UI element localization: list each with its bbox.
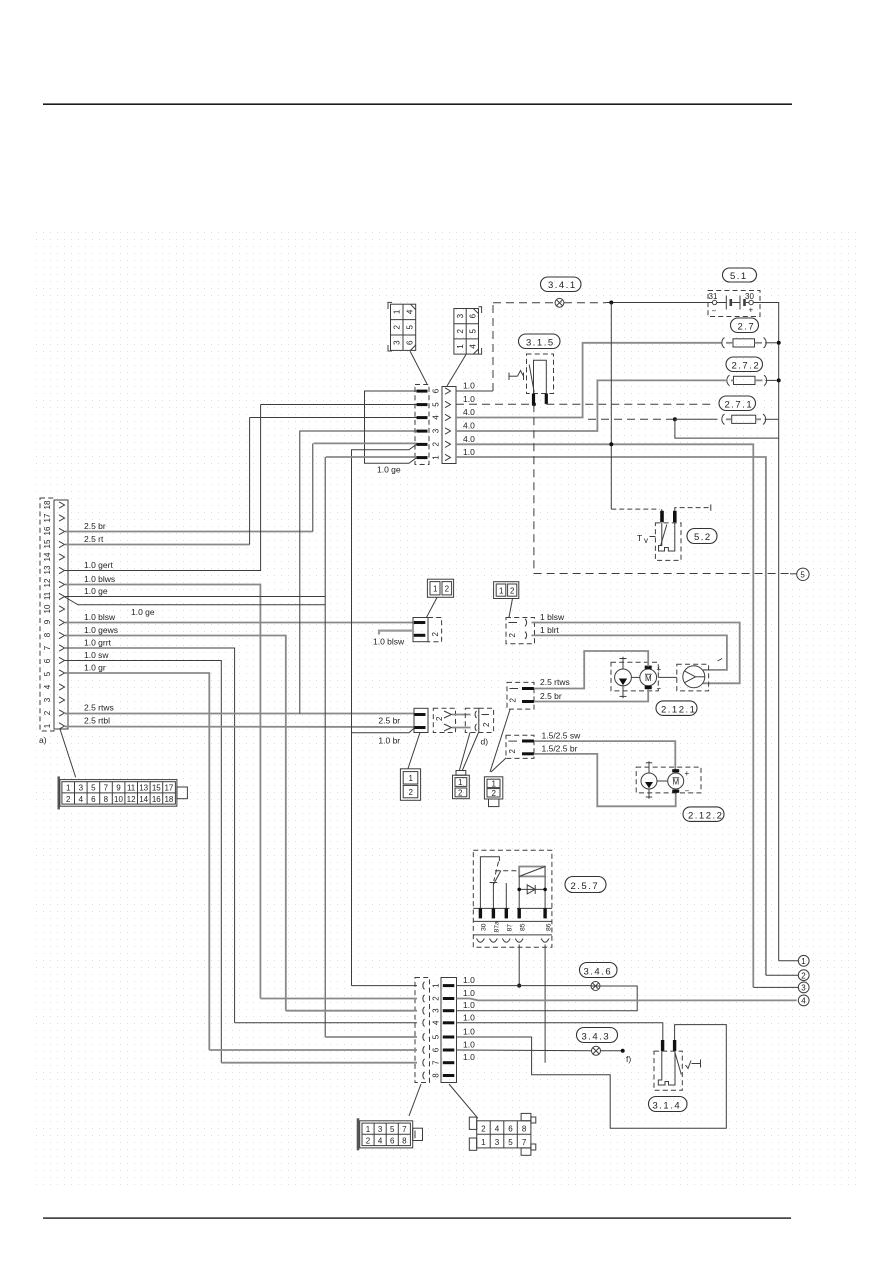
svg-text:4: 4 <box>405 309 414 314</box>
svg-text:a): a) <box>39 735 47 745</box>
connector X5 (1blsw/1blrt) plug view <box>494 582 519 599</box>
svg-text:10: 10 <box>43 604 52 613</box>
svg-text:3.4.6: 3.4.6 <box>584 966 613 977</box>
svg-text:1.0 gert: 1.0 gert <box>84 560 113 570</box>
junction X2pin5/3.1.5/node5 <box>532 402 536 406</box>
svg-text:14: 14 <box>139 795 148 804</box>
leaders X8d to plug g2 <box>460 733 471 771</box>
node circle 1 <box>779 960 799 962</box>
wire 1.0 blsw stub <box>379 631 413 635</box>
leader X4 plug to connector <box>427 598 438 618</box>
svg-text:3: 3 <box>79 784 84 793</box>
leader X8c to plug g1 <box>408 733 420 769</box>
svg-text:1.0 blsw: 1.0 blsw <box>84 612 116 622</box>
connector X2 wedges <box>445 388 451 461</box>
lamp E1 symbol <box>555 298 564 307</box>
connector X4 housing <box>413 618 428 642</box>
svg-text:2.7: 2.7 <box>738 322 756 333</box>
svg-text:7: 7 <box>402 1125 407 1134</box>
battery G1 cells <box>717 296 749 310</box>
svg-text:2: 2 <box>456 329 465 334</box>
relay K1 armature dashed link <box>494 862 499 882</box>
switch F5 vT symbol <box>686 1060 701 1069</box>
svg-text:3: 3 <box>495 1138 500 1147</box>
svg-text:1: 1 <box>43 723 52 728</box>
wire X2 pin4 right to fuse 2.7 <box>456 343 722 418</box>
svg-text:2: 2 <box>432 442 441 447</box>
connector X1 pin numbers 1-18 <box>43 500 52 728</box>
wire X3 pin2 to node 4 <box>457 999 797 1001</box>
relay K1 diode V1 <box>519 885 545 894</box>
svg-text:6: 6 <box>432 388 441 393</box>
svg-text:2: 2 <box>481 1125 486 1134</box>
svg-text:3: 3 <box>432 428 441 433</box>
svg-text:2: 2 <box>393 325 402 330</box>
sensor B1 5.2 housing dashed <box>655 523 681 561</box>
svg-text:11: 11 <box>127 784 136 793</box>
relay K1 socket wedges <box>477 939 550 943</box>
svg-text:2.7.2: 2.7.2 <box>732 361 761 372</box>
svg-text:2: 2 <box>445 585 450 594</box>
motor M2 2.12.2 housing dashed <box>636 767 701 793</box>
connector X8c wedges <box>444 711 452 718</box>
svg-text:1.0: 1.0 <box>463 394 475 404</box>
X2 plug view box e2 (mirror 3-6) <box>454 307 482 354</box>
svg-text:−: − <box>657 684 662 693</box>
svg-text:4: 4 <box>79 795 84 804</box>
svg-text:+: + <box>685 769 690 778</box>
svg-text:5: 5 <box>405 325 414 330</box>
svg-text:1: 1 <box>433 585 438 594</box>
wire X2 pin5 to X1 pin13 <box>261 404 417 406</box>
wire X2 pin4 to X1 pin15 <box>250 417 417 419</box>
wire 1.0 ge pin11 lower branch <box>64 597 325 605</box>
fuse F2 symbol <box>727 375 777 386</box>
svg-text:8: 8 <box>104 795 109 804</box>
wire X2 pin1 to ge bus <box>326 456 417 458</box>
svg-text:3.4.3: 3.4.3 <box>582 1031 611 1042</box>
svg-text:30: 30 <box>481 923 488 931</box>
svg-text:9: 9 <box>116 784 121 793</box>
svg-text:7: 7 <box>43 645 52 650</box>
svg-text:87a: 87a <box>494 921 501 933</box>
X1 pinout table <box>58 776 188 809</box>
plug h1 pinout table <box>357 1118 423 1150</box>
motor M1 link <box>631 676 639 678</box>
wire 1.0 blws pin12 <box>65 585 260 999</box>
svg-text:6: 6 <box>468 313 477 318</box>
svg-text:6: 6 <box>432 1047 441 1052</box>
svg-text:1: 1 <box>409 774 414 783</box>
wire X3 pin4 to switch 3.1.4 left <box>457 1023 663 1040</box>
svg-text:2: 2 <box>66 795 71 804</box>
svg-text:4: 4 <box>468 344 477 349</box>
svg-text:1.0: 1.0 <box>463 447 475 457</box>
sensor B1 5.2 terminal marks <box>660 511 664 523</box>
svg-text:1.5/2.5 sw: 1.5/2.5 sw <box>542 731 582 741</box>
svg-text:2.12.2: 2.12.2 <box>688 810 723 821</box>
connector X1 wedge contacts <box>59 502 65 729</box>
connector X3 wedges <box>423 982 425 1080</box>
svg-text:13: 13 <box>139 784 148 793</box>
wire X2 pin3 right to fuse 2.7.2 <box>456 380 726 431</box>
switch F5 probe <box>658 1051 681 1085</box>
svg-text:87: 87 <box>507 924 514 932</box>
svg-text:1: 1 <box>393 309 402 314</box>
svg-text:5.1: 5.1 <box>730 271 748 282</box>
wire V611 feed down to sensor 5.2 <box>610 303 612 510</box>
sensor B1 5.2 label <box>687 529 717 544</box>
svg-text:6: 6 <box>508 1125 513 1134</box>
switch F4 3.1.5 housing dashed <box>527 354 554 394</box>
relay K1 coil <box>519 867 545 877</box>
plug g1 view <box>400 769 420 801</box>
svg-text:1: 1 <box>366 1125 371 1134</box>
svg-text:1.0 gews: 1.0 gews <box>84 625 118 635</box>
top rule <box>43 103 792 105</box>
connector X5 wedges <box>525 619 527 626</box>
svg-text:16: 16 <box>152 795 161 804</box>
svg-text:2: 2 <box>492 789 497 798</box>
svg-text:d): d) <box>481 737 489 747</box>
svg-text:2: 2 <box>432 996 441 1001</box>
wire X2 pin3 to X1 pin2 rtws <box>300 431 417 714</box>
connector X6 (2.5 rtws/br) housing dashed <box>507 682 534 709</box>
switch F5 3.1.4 housing dashed <box>654 1051 682 1090</box>
svg-text:7: 7 <box>522 1138 527 1147</box>
svg-text:1.0 ge: 1.0 ge <box>377 465 401 475</box>
connector X3 pin marks <box>443 984 455 1077</box>
svg-text:8: 8 <box>402 1136 407 1145</box>
svg-text:3.1.5: 3.1.5 <box>526 338 555 349</box>
svg-text:5: 5 <box>91 784 96 793</box>
wire 1.0 br jog to X8c pin2 <box>352 728 415 733</box>
switch F4 terminal marks <box>532 394 535 404</box>
svg-text:f): f) <box>626 1054 631 1064</box>
relay K1 moving contact <box>493 871 501 885</box>
svg-text:+: + <box>657 665 662 674</box>
leader plug e2 to X2 <box>447 355 466 387</box>
svg-text:17: 17 <box>164 784 173 793</box>
switch F5 3.1.4 label <box>649 1097 688 1112</box>
svg-text:1.0: 1.0 <box>463 381 475 391</box>
relay K1 coil risers <box>518 876 520 908</box>
connector X8d housing <box>465 708 479 732</box>
svg-text:18: 18 <box>164 795 173 804</box>
node circle 5 <box>797 568 809 580</box>
wire lamp row dashed to battery <box>493 302 555 304</box>
svg-text:M: M <box>645 674 652 683</box>
svg-text:15: 15 <box>43 539 52 548</box>
battery G1 terminal 30 <box>749 300 753 304</box>
fuse F3 2.7.1 label <box>719 396 756 411</box>
svg-text:18: 18 <box>43 500 52 509</box>
wire 2.5 br pin16 <box>65 531 313 533</box>
svg-text:6: 6 <box>43 658 52 663</box>
motor M1 2.12.1 housing dashed <box>611 662 658 691</box>
svg-text:13: 13 <box>43 565 52 574</box>
connector X7 pin marks <box>522 740 534 743</box>
svg-text:1.0 br: 1.0 br <box>378 736 400 746</box>
connector X1 wedge contact box <box>54 500 68 729</box>
svg-text:17: 17 <box>43 513 52 522</box>
connector X3 pin-mark housing <box>441 978 457 1083</box>
svg-text:2.5 rtws: 2.5 rtws <box>540 677 570 687</box>
connector X8c housing <box>414 708 428 732</box>
node circle 4 <box>798 995 809 1006</box>
connector X6 pin marks <box>522 687 534 690</box>
svg-text:6: 6 <box>405 340 414 345</box>
wire node5 dashed drop and run to node circle 5 <box>534 404 790 573</box>
svg-text:2: 2 <box>508 749 517 754</box>
svg-text:12: 12 <box>127 795 136 804</box>
svg-text:4: 4 <box>432 415 441 420</box>
svg-text:1: 1 <box>432 983 441 988</box>
mark speckle <box>718 659 723 662</box>
X3 left row stubs <box>209 986 417 1063</box>
wire X3 pin5 loop to switch 3.1.4 right <box>457 1025 727 1129</box>
svg-text:4: 4 <box>432 1020 441 1025</box>
wire lamp 3.4.3 stub to f) <box>601 1050 623 1052</box>
connector X2 wedge housing <box>442 387 456 464</box>
svg-text:M: M <box>673 777 680 786</box>
wire X2 pin5 dashed row (terminal 15) <box>456 403 531 405</box>
svg-text:3.1.4: 3.1.4 <box>653 1100 682 1111</box>
motor M1 armature circle <box>640 669 657 686</box>
svg-text:86: 86 <box>546 923 553 931</box>
svg-text:10: 10 <box>114 795 123 804</box>
motor M1 pump circle <box>615 657 632 699</box>
wire 2.5 rtbl pin1 <box>65 726 415 729</box>
svg-text:1.5/2.5 br: 1.5/2.5 br <box>542 744 578 754</box>
sensor B1 open stub right <box>675 508 711 511</box>
connector X1 18-pin strip (left) outer dashed housing <box>40 498 54 731</box>
svg-text:85: 85 <box>520 923 527 931</box>
wire 1.0 sw pin6 <box>65 661 221 1063</box>
connector X5 housing dashed <box>506 618 535 644</box>
node circle 2 <box>766 974 798 976</box>
svg-text:12: 12 <box>43 578 52 587</box>
svg-text:5: 5 <box>508 1138 513 1147</box>
svg-text:9: 9 <box>43 619 52 624</box>
svg-text:1.0 blsw: 1.0 blsw <box>373 637 405 647</box>
svg-text:+: + <box>749 306 754 315</box>
svg-text:5: 5 <box>432 402 441 407</box>
svg-text:4: 4 <box>495 1125 500 1134</box>
plug h2 pinout table <box>469 1113 536 1155</box>
svg-text:2: 2 <box>435 716 444 721</box>
svg-text:1.0 gr: 1.0 gr <box>84 663 106 673</box>
svg-text:3: 3 <box>43 697 52 702</box>
wire fuse 2.7.1 bypass loop to feed riser <box>675 419 779 438</box>
connector X3 pin numbers 1-8 <box>432 983 441 1078</box>
motor M2 link <box>657 780 668 782</box>
svg-text:2: 2 <box>801 971 806 980</box>
wire 2.5 rtws to M1 plus <box>534 651 648 689</box>
svg-text:1: 1 <box>432 455 441 460</box>
wire X2 pin2 right to node 3 riser <box>456 444 753 987</box>
svg-text:3: 3 <box>801 984 806 993</box>
connector X7 (1.5/2.5) housing dashed <box>506 735 534 758</box>
svg-text:2: 2 <box>431 632 440 637</box>
svg-text:3: 3 <box>456 313 465 318</box>
relay K1 pin bars <box>479 908 547 918</box>
wire 1.0 ge jumper X2 pin6 to pin1 (harness loop) <box>365 391 417 463</box>
svg-text:1 blrt: 1 blrt <box>540 625 560 635</box>
motor M2 terminal marks <box>672 769 679 772</box>
svg-text:T: T <box>637 533 642 543</box>
svg-text:−: − <box>685 787 690 796</box>
svg-text:8: 8 <box>432 1073 441 1078</box>
connector X2 pin contact marks <box>417 390 428 460</box>
svg-text:14: 14 <box>43 552 52 561</box>
svg-text:2.5 br: 2.5 br <box>540 691 562 701</box>
relay K1 switch: pin30 riser <box>480 857 499 909</box>
wire dashed branch to fuse 2.7.1 <box>588 418 675 420</box>
svg-text:2.5.7: 2.5.7 <box>571 881 600 892</box>
svg-text:2.5 rtbl: 2.5 rtbl <box>84 716 110 726</box>
svg-text:4: 4 <box>378 1136 383 1145</box>
svg-text:5: 5 <box>432 1034 441 1039</box>
svg-text:2.12.1: 2.12.1 <box>661 704 696 715</box>
svg-text:7: 7 <box>104 784 109 793</box>
wire X2 pin1 right to node 2 riser <box>456 457 766 975</box>
wire X3 pin1 to lamp 3.4.6 and down to pin3 <box>457 986 638 1011</box>
svg-text:31: 31 <box>709 292 718 301</box>
connector X2 6-pin: pin-mark housing (dashed) <box>415 385 429 465</box>
svg-text:3.4.1: 3.4.1 <box>548 280 577 291</box>
fuse F1 2.7 label <box>731 318 759 333</box>
sensor B1 probe <box>659 523 675 551</box>
wire 1.5/2.5 sw to M2 plus <box>534 741 675 771</box>
wire X2 pin2 jog branch down to X3 pin1 <box>352 444 417 985</box>
connector X8c pin marks <box>415 713 426 716</box>
battery G1 terminal 31 <box>712 300 716 304</box>
connector X2 pin numbers 6..1 <box>432 388 441 460</box>
svg-text:4: 4 <box>43 684 52 689</box>
wire relay86 down to X3 pin7 <box>544 945 546 1063</box>
svg-text:2.5 rtws: 2.5 rtws <box>84 703 114 713</box>
wire 1.0 grrt pin7 <box>65 648 235 1023</box>
svg-text:4.0: 4.0 <box>463 421 475 431</box>
wire 1 blrt to fan <box>532 635 727 670</box>
label 2.12.2 <box>683 807 724 822</box>
switch F4 contact frame <box>534 360 547 393</box>
leader X7 to plug g3 <box>491 758 506 772</box>
svg-text:5: 5 <box>800 571 805 580</box>
svg-text:2: 2 <box>409 788 414 797</box>
label 2.5.7 <box>565 877 606 893</box>
wire battery 30 to main feed riser <box>753 303 778 420</box>
wire 2.5 rt pin15 <box>65 544 250 546</box>
svg-text:3: 3 <box>378 1125 383 1134</box>
svg-text:3: 3 <box>432 1008 441 1013</box>
svg-text:2.5 br: 2.5 br <box>84 521 106 531</box>
svg-text:−: − <box>712 307 717 316</box>
lamp E3 3.4.3 label <box>577 1028 618 1043</box>
connector X8d wedges <box>475 711 476 718</box>
svg-text:4.0: 4.0 <box>463 434 475 444</box>
wire 1.0 gert pin13 <box>65 405 261 571</box>
node circle 3 <box>753 986 798 988</box>
switch F4 actuator symbol <box>509 365 534 393</box>
motor M2 pump circle <box>641 761 657 798</box>
svg-text:1.0: 1.0 <box>463 975 475 985</box>
wire relay85 down to row1 junction <box>518 945 520 986</box>
lamp E1 3.4.1 label <box>541 277 582 292</box>
connector X4 pin marks <box>414 621 426 624</box>
fan housing dashed <box>677 664 709 691</box>
svg-text:6: 6 <box>91 795 96 804</box>
X2 plug view box e1 (1-6) <box>388 302 416 351</box>
svg-text:1 blsw: 1 blsw <box>540 612 565 622</box>
leader X5 plug to connector <box>509 599 513 618</box>
wire 2.5 br to M1 minus <box>534 689 648 701</box>
relay K1 pin 87 riser <box>505 883 507 908</box>
fuse F1 symbol <box>722 338 777 349</box>
svg-text:1.0: 1.0 <box>463 1040 475 1050</box>
svg-text:4: 4 <box>801 997 806 1006</box>
leader X3 to plug h1 <box>409 1084 421 1116</box>
relay K1 pin 87a riser <box>492 883 494 909</box>
svg-text:7: 7 <box>432 1060 441 1065</box>
svg-text:2: 2 <box>510 587 515 596</box>
leader X1 to pinout table <box>60 729 76 778</box>
plug g3 view <box>484 777 502 807</box>
battery G1 5.1 label <box>723 268 757 282</box>
fuse F2 2.7.2 label <box>726 357 763 372</box>
svg-text:1.0: 1.0 <box>463 1052 475 1062</box>
relay K1 terminal labels 30 87a 87 85 86 <box>481 921 553 933</box>
X3 wire size labels 1.0 <box>463 975 475 1062</box>
motor M1 terminal marks <box>645 666 652 669</box>
svg-text:1: 1 <box>66 784 71 793</box>
svg-text:1.0: 1.0 <box>463 988 475 998</box>
wire 2.5 rtws pin2 <box>65 713 415 715</box>
svg-text:16: 16 <box>43 526 52 535</box>
svg-text:v: v <box>644 536 648 545</box>
svg-text:1.0 grrt: 1.0 grrt <box>84 638 112 648</box>
svg-text:15: 15 <box>152 784 161 793</box>
svg-text:30: 30 <box>745 292 754 301</box>
svg-text:2.7.1: 2.7.1 <box>725 400 754 411</box>
bottom rule <box>43 1217 791 1218</box>
X2 wire size labels <box>463 381 475 458</box>
junction fuse 2.7.1 left <box>673 417 677 421</box>
wire X3 pin6 to lamp 3.4.3 <box>457 1049 592 1052</box>
leader X3 to plug h2 <box>449 1084 478 1118</box>
svg-text:1.0 ge: 1.0 ge <box>131 607 155 617</box>
lamp E2 3.4.6 label <box>580 963 618 978</box>
label 2.12.1 <box>656 701 697 716</box>
relay K1 2.5.7 housing dashed <box>473 850 552 947</box>
svg-text:2: 2 <box>458 789 463 798</box>
fan symbol <box>683 666 705 688</box>
connector X3 8-pin wedge housing dashed <box>415 978 430 1083</box>
leader plug e1 to X2 <box>410 351 427 384</box>
svg-text:8: 8 <box>522 1125 527 1134</box>
leader X6 to plug g3 <box>490 710 510 773</box>
svg-text:3: 3 <box>393 340 402 345</box>
wire feed riser V3 down to node 1 <box>778 438 780 961</box>
fuse F3 symbol <box>675 414 779 425</box>
wire 1.5/2.5 br to M2 minus <box>534 754 676 806</box>
harness link X8c to X8d <box>452 714 471 716</box>
wire 1.0 gews pin8 <box>65 636 286 1011</box>
svg-text:1.0 sw: 1.0 sw <box>84 650 109 660</box>
wire 1 blsw to fan <box>532 623 740 684</box>
lamp E2 3.4.6 symbol <box>591 982 600 991</box>
